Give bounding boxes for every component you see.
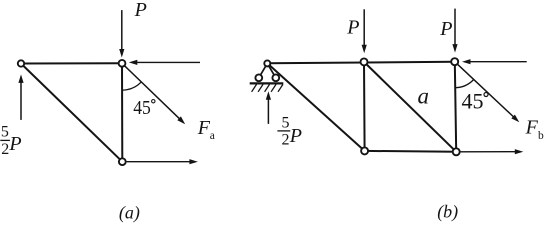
bottom chord force arrow pointing right (a): [127, 159, 198, 164]
svg-text:P: P: [134, 0, 147, 21]
reaction arrow 5/2 P (b): [266, 91, 271, 124]
45 degree arc (a): [122, 82, 141, 90]
45 degree arc (b): [455, 80, 474, 88]
load P arrow 1 (b): [362, 9, 367, 53]
support ground line (b): [250, 82, 284, 84]
member vertical 2 (b): [455, 62, 456, 152]
support hatching (b): [252, 84, 283, 91]
reaction arrow 5/2 P (a): [18, 74, 23, 120]
load P arrow 2 (b): [452, 9, 457, 53]
support struts (b): [259, 63, 268, 77]
svg-text:F: F: [525, 116, 539, 138]
diagonal force arrow F_b (b): [457, 64, 519, 122]
node top-left / support pin (b): [264, 60, 270, 66]
top chord force arrow pointing left (a): [129, 60, 200, 65]
support roller right (b): [272, 74, 279, 81]
load P arrow (a): [119, 10, 124, 57]
member diagonal from support (b): [267, 63, 364, 151]
node B (a): [119, 60, 126, 67]
support roller left (b): [255, 74, 262, 81]
member top chord (b): [267, 62, 455, 64]
label 5/2 P (b): [277, 115, 302, 149]
label F_b (b): [525, 116, 544, 142]
svg-text:(b): (b): [437, 201, 458, 222]
svg-text:a: a: [210, 130, 215, 142]
svg-text:F: F: [197, 117, 211, 139]
svg-text:45: 45: [133, 97, 151, 119]
label F_a (a): [197, 117, 215, 142]
member diagonal A-C: [21, 64, 122, 162]
member diagonal a (b): [364, 62, 456, 152]
svg-text:2: 2: [1, 141, 9, 158]
diagonal force arrow F_a (a): [125, 66, 186, 124]
svg-text:5: 5: [282, 115, 290, 132]
member top chord A-B: [21, 62, 122, 64]
member vertical 1 (b): [363, 62, 366, 151]
svg-text:P: P: [346, 17, 359, 39]
svg-text:a: a: [418, 84, 430, 109]
member vertical B-C: [121, 63, 123, 161]
svg-text:P: P: [8, 133, 21, 155]
member bottom chord (b): [365, 150, 457, 153]
svg-text:P: P: [289, 125, 302, 147]
top chord force arrow pointing left (b): [462, 59, 527, 64]
bottom chord force arrow pointing right (b): [460, 149, 524, 154]
svg-text:(a): (a): [119, 202, 140, 223]
svg-text:b: b: [538, 130, 544, 142]
node C (a): [119, 158, 126, 165]
node bottom-left (b): [361, 147, 368, 154]
svg-text:5: 5: [1, 124, 9, 141]
svg-text:2: 2: [282, 131, 290, 148]
label 5/2 P (a): [0, 124, 21, 159]
node bottom-right (b): [453, 148, 460, 155]
node A (a): [18, 60, 24, 66]
node top-middle (b): [361, 58, 368, 65]
svg-text:45: 45: [462, 89, 484, 114]
node top-right (b): [451, 58, 458, 65]
svg-text:P: P: [439, 18, 452, 40]
